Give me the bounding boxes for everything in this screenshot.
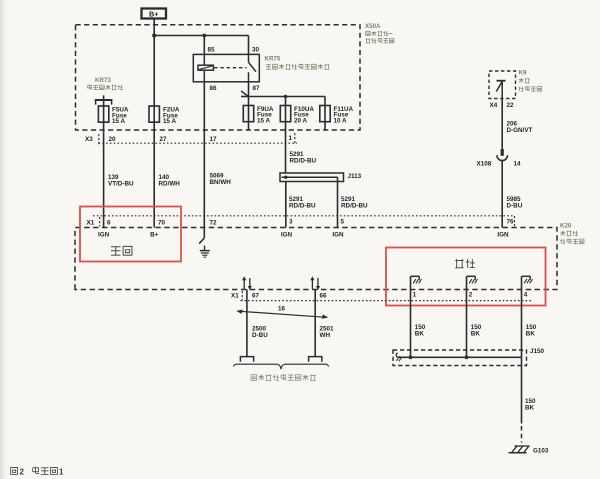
svg-text:76: 76: [507, 219, 515, 226]
bus arrows pin 66: [310, 276, 320, 290]
terminal (wire 2501): [309, 357, 322, 362]
wire J113 to pin 3: [285, 182, 287, 228]
wire B+ vertical to fuse F2UA: [153, 19, 155, 107]
fuse F5UA: [98, 106, 108, 122]
connector X3 line: [99, 142, 298, 144]
relay KR73 output bar symbol: [95, 95, 113, 106]
svg-text:X4: X4: [490, 102, 498, 109]
wire label 150 BK (pin 4): [526, 324, 537, 338]
svg-text:BN/WH: BN/WH: [210, 179, 232, 186]
svg-text:IGN: IGN: [281, 231, 293, 238]
svg-text:VT/D-BU: VT/D-BU: [108, 181, 134, 188]
svg-text:2: 2: [469, 292, 473, 299]
wire K9 to X108: [501, 99, 503, 151]
svg-text:BK: BK: [471, 331, 481, 338]
pin 20 label: [109, 136, 117, 143]
inline connector X108 labels: [477, 161, 522, 168]
wire label 5985 D-BU: [507, 196, 523, 210]
wire 150 BK to G103: [521, 366, 523, 424]
wire label 139 VT/D-BU: [108, 174, 134, 188]
connector X1 label (ECM bottom): [231, 291, 242, 301]
svg-text:20: 20: [109, 136, 117, 143]
svg-text:G103: G103: [533, 447, 549, 454]
wire label 5069 BN/WH: [210, 173, 232, 187]
splice tick on 87 feed: [241, 91, 249, 97]
svg-text:X1: X1: [87, 219, 95, 226]
relay KR75 pin 85 label: [208, 47, 216, 54]
wire 150 BK (pin 2): [466, 290, 468, 358]
svg-text:BK: BK: [415, 331, 425, 338]
svg-text:20 A: 20 A: [294, 117, 308, 124]
svg-text:27: 27: [160, 136, 168, 143]
svg-text:BK: BK: [526, 331, 536, 338]
wire B+ horizontal feed to relay: [154, 35, 248, 37]
ECM K20 box (engine control module): [75, 228, 557, 290]
relay KR75 pin 86 label: [210, 85, 218, 92]
splice pack J113: [280, 173, 344, 182]
wire bus to F10UA: [284, 95, 288, 106]
wire relay 86 to pin 72: [203, 82, 205, 238]
splice pack J113 label: [348, 173, 362, 180]
connector X4 pin 22: [490, 102, 515, 109]
wire dashed tail to G103: [521, 426, 523, 443]
svg-text:KR75: KR75: [265, 56, 281, 63]
net IGN label (pin 6): [98, 231, 110, 238]
fuse F2UA value label: [163, 107, 180, 126]
svg-text:70: 70: [158, 219, 166, 226]
data bus 16 label: [278, 305, 286, 312]
wire J113 right leg: [337, 177, 339, 227]
svg-text:X50A: X50A: [365, 23, 381, 30]
svg-text:X1: X1: [231, 293, 239, 300]
caption figure 2 circuit diagram 1: [11, 467, 64, 477]
svg-text:BK: BK: [525, 405, 535, 412]
relay KR75 contact blade: [249, 54, 257, 81]
wire label 150 BK (pin 2): [471, 324, 482, 338]
fuse F9UA value label: [257, 106, 274, 125]
module K9 label: [519, 70, 542, 92]
connector X3 label: [85, 134, 99, 145]
wire relay 87 down: [248, 82, 250, 97]
fuse F10UA: [280, 106, 290, 122]
wire fuse F5UA to X3 pin 20: [103, 122, 105, 227]
pin 76 label: [507, 216, 515, 226]
module K9 switch symbol: [496, 81, 505, 99]
svg-text:66: 66: [320, 293, 328, 300]
pin 4 label: [524, 292, 528, 299]
wire label 5291 RD/D-BU (right): [341, 196, 368, 210]
wire to relay pin 30: [248, 36, 250, 55]
svg-text:KR73: KR73: [95, 77, 111, 84]
svg-text:2: 2: [20, 467, 25, 476]
callout box ground (jie di): [386, 248, 546, 306]
svg-text:RD/WH: RD/WH: [159, 181, 181, 188]
svg-text:1: 1: [413, 292, 417, 299]
ground symbol ECM pin 4: [522, 276, 533, 289]
pin 67 label: [252, 293, 260, 300]
pin 1 label (F10UA output): [289, 133, 295, 144]
wire 150 BK (pin 1): [410, 290, 412, 358]
svg-text:1: 1: [59, 467, 64, 476]
svg-text:RD/D-BU: RD/D-BU: [289, 203, 316, 210]
fuse F9UA: [243, 106, 253, 122]
wire 2501 serial data: [314, 290, 316, 357]
wire F10UA to splice J113: [285, 122, 287, 173]
svg-text:K20: K20: [560, 222, 572, 229]
relay KR75 pin 30 label: [252, 47, 260, 54]
svg-text:15 A: 15 A: [257, 117, 271, 124]
callout box power supply (gong dian): [80, 207, 181, 262]
net IGN label (pin 3): [281, 231, 293, 238]
svg-text:X3: X3: [85, 136, 93, 143]
svg-text:85: 85: [208, 47, 216, 54]
pin 3 label: [289, 219, 293, 226]
relay KR75 coil-contact dashed link: [214, 67, 246, 69]
svg-text:16: 16: [278, 305, 286, 312]
svg-text:14: 14: [514, 161, 522, 168]
svg-text:22: 22: [507, 102, 515, 109]
relay KR75 pin 87 label: [253, 85, 261, 92]
svg-text:RD/D-BU: RD/D-BU: [290, 158, 317, 165]
wire pin 72 internal: [199, 238, 204, 244]
svg-text:5: 5: [341, 219, 345, 226]
wire F9UA stub to box edge: [248, 122, 250, 130]
wire bus to F9UA: [248, 97, 250, 106]
wire to relay pin 85: [203, 36, 205, 55]
wire label 150 BK (G103): [525, 398, 536, 412]
wire bus to F11UA: [324, 97, 326, 106]
fuse F10UA value label: [294, 106, 314, 125]
pin 2 label: [469, 292, 473, 299]
wire label 5291 RD/D-BU (feed): [290, 151, 317, 165]
inline connector X108: [497, 149, 508, 228]
svg-text:10 A: 10 A: [334, 117, 348, 124]
wire F11UA stub to box edge: [324, 122, 326, 130]
wire label 5291 RD/D-BU (left): [289, 196, 316, 210]
splice J150 box: [393, 350, 527, 366]
wire pin 4 through J150: [521, 350, 523, 366]
svg-text:15 A: 15 A: [112, 118, 126, 125]
relay KR75 coil: [198, 54, 213, 81]
svg-text:X108: X108: [477, 161, 492, 168]
pin 1 label: [413, 292, 417, 299]
svg-text:72: 72: [210, 219, 218, 226]
wire 2500 serial data: [246, 290, 248, 357]
ground G103 symbol: [509, 446, 530, 453]
wire label 2501 WH: [320, 326, 335, 340]
pin 17 label: [210, 136, 218, 143]
wire label 140 RD/WH: [159, 174, 181, 188]
svg-text:B+: B+: [149, 10, 158, 19]
junction relay coil drop: [202, 34, 206, 38]
wire label 2500 D-BU: [252, 326, 268, 340]
svg-text:3: 3: [289, 219, 293, 226]
wire 150 BK (pin 4): [521, 290, 523, 351]
svg-text:D-BU: D-BU: [252, 332, 268, 339]
ECM K20 label: [560, 222, 584, 244]
pin 6 label: [107, 219, 111, 226]
fuse F11UA value label: [334, 106, 354, 125]
net IGN label (pin 76): [497, 231, 509, 238]
svg-text:D-GN/VT: D-GN/VT: [507, 127, 533, 134]
fuse F5UA value label: [112, 107, 129, 126]
fuse F11UA: [320, 106, 330, 122]
svg-text:67: 67: [252, 293, 260, 300]
data bus 16 line: [236, 310, 328, 319]
pin 72 label: [210, 219, 218, 226]
svg-text:IGN: IGN: [332, 231, 344, 238]
splice J150 bus bar: [396, 353, 521, 362]
svg-text:WH: WH: [320, 332, 331, 339]
ground G103 label: [533, 447, 549, 454]
svg-text:J150: J150: [530, 348, 545, 355]
pin 27 label: [160, 136, 168, 143]
brace (data link note): [234, 364, 329, 369]
svg-text:RD/D-BU: RD/D-BU: [341, 203, 368, 210]
svg-text:6: 6: [107, 219, 111, 226]
fuse F2UA: [149, 106, 159, 122]
pin 70 label: [158, 219, 166, 226]
splice J150 label: [530, 348, 545, 355]
fuse block X50A box (underhood fuse box): [76, 25, 361, 130]
ground symbol ECM pin 2: [467, 276, 478, 289]
connector X1 line (ECM top): [93, 215, 514, 217]
pin 5 label: [341, 219, 345, 226]
svg-text:87: 87: [253, 85, 261, 92]
fuse block X50A label: [365, 23, 394, 43]
svg-text:IGN: IGN: [497, 231, 509, 238]
relay KR75 box: [193, 54, 259, 81]
terminal (wire 2500): [240, 357, 253, 362]
net B+ label (pin 70): [150, 231, 159, 238]
svg-text:30: 30: [252, 47, 260, 54]
battery feed B+ box: [142, 9, 167, 19]
net IGN label (pin 5): [332, 231, 344, 238]
svg-text:IGN: IGN: [98, 231, 110, 238]
relay KR75 name label: [265, 56, 330, 70]
wire label 206 D-GN/VT: [507, 121, 533, 135]
svg-text:K9: K9: [519, 70, 527, 77]
svg-text:J113: J113: [348, 173, 362, 180]
svg-text:17: 17: [210, 136, 218, 143]
connector line (ECM bottom left): [241, 300, 532, 302]
ground symbol (ECM internal): [200, 246, 210, 258]
svg-text:D-BU: D-BU: [507, 203, 523, 210]
wire label 150 BK (pin 1): [415, 324, 426, 338]
wire fuse F2UA to X1 pin 70: [153, 122, 155, 227]
connector X1 label: [87, 217, 100, 227]
note data communication circuit diagram: [251, 374, 316, 380]
svg-text:86: 86: [210, 85, 218, 92]
wire 87 feed bus: [249, 96, 326, 98]
svg-text:1: 1: [289, 135, 293, 142]
bus arrows pin 67: [242, 276, 252, 290]
ground symbol ECM pin 1: [411, 276, 422, 289]
relay KR73 name label: [88, 77, 123, 90]
svg-text:15 A: 15 A: [163, 118, 177, 125]
pin 66 label: [320, 293, 328, 300]
module K9 box: [489, 71, 516, 99]
svg-text:4: 4: [524, 292, 528, 299]
svg-text:B+: B+: [150, 231, 159, 238]
junction B+ splice: [152, 33, 156, 37]
